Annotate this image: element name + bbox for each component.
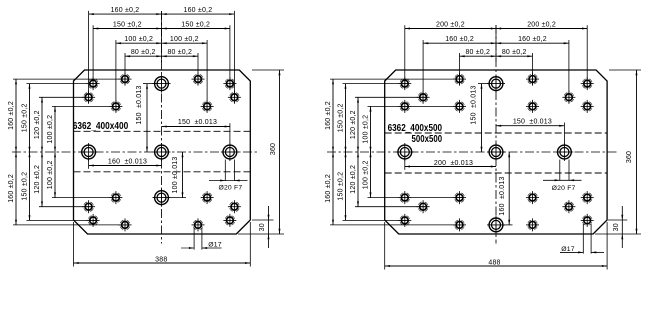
left plate top dim 80 ±0,2 bbox=[125, 49, 198, 85]
left plate vertical centerline bbox=[161, 11, 163, 244]
svg-text:120 ±0,2: 120 ±0,2 bbox=[34, 110, 41, 139]
right plate vertical centerline bbox=[495, 25, 497, 244]
right plate small hole Ø17 at (+36,+73) bbox=[526, 218, 539, 231]
left plate big hole right Ø20F7 bbox=[221, 143, 239, 161]
right plate small hole Ø17 at (-73,-55) bbox=[417, 91, 430, 104]
svg-text:150 ±0.013: 150 ±0.013 bbox=[513, 118, 552, 125]
left plate top dim 150 ±0,2 bbox=[93, 21, 230, 89]
svg-text:160 ±0,2: 160 ±0,2 bbox=[518, 36, 547, 43]
svg-text:150 ±0.013: 150 ±0.013 bbox=[471, 85, 478, 124]
right plate inner dim 150 horizontal bbox=[496, 118, 564, 148]
right plate small hole Ø17 at (+73,+55) bbox=[562, 200, 575, 213]
svg-text:360: 360 bbox=[270, 143, 277, 155]
left plate horizontal centerline bbox=[12, 151, 259, 153]
right plate small hole Ø17 at (+73,-55) bbox=[562, 91, 575, 104]
svg-text:30: 30 bbox=[259, 223, 266, 231]
left plate small hole Ø17 at (+73,+55) bbox=[228, 200, 241, 213]
left plate small hole Ø17 at (+68,+68) bbox=[223, 214, 236, 227]
svg-text:100 ±0.013: 100 ±0.013 bbox=[172, 157, 179, 194]
right plate big hole bottom Ø20F7 bbox=[487, 216, 505, 234]
svg-text:80 ±0,2: 80 ±0,2 bbox=[465, 49, 490, 56]
right plate outline 488x360 bbox=[385, 70, 607, 234]
left plate dashed line lower bbox=[74, 171, 251, 173]
svg-text:100 ±0,2: 100 ±0,2 bbox=[363, 160, 370, 189]
left plate width dim 388 bbox=[74, 222, 251, 267]
right plate big hole right Ø20F7 bbox=[555, 143, 573, 161]
svg-text:200 ±0.013: 200 ±0.013 bbox=[434, 160, 473, 167]
left plate small hole Ø17 at (-68,-68) bbox=[87, 77, 100, 90]
right plate dashed line lower bbox=[385, 172, 607, 174]
svg-text:150 ±0,2: 150 ±0,2 bbox=[338, 172, 345, 201]
svg-text:160 ±0.013: 160 ±0.013 bbox=[499, 176, 506, 215]
left plate inner dim 160 horizontal bbox=[89, 156, 162, 169]
right plate side dim 160 ±0,2 bbox=[325, 79, 334, 225]
right plate inner dim 200 horizontal bbox=[405, 156, 496, 170]
svg-text:120 ±0,2: 120 ±0,2 bbox=[350, 165, 357, 194]
svg-text:160 ±0.013: 160 ±0.013 bbox=[108, 159, 147, 166]
left plate small hole Ø17 at (-36,+73) bbox=[119, 218, 132, 231]
svg-text:Ø20 F7: Ø20 F7 bbox=[218, 184, 242, 191]
svg-text:150 ±0.013: 150 ±0.013 bbox=[178, 119, 217, 126]
svg-text:100 ±0,2: 100 ±0,2 bbox=[124, 36, 153, 43]
svg-text:160 ±0,2: 160 ±0,2 bbox=[445, 36, 474, 43]
left plate small hole Ø17 at (-46,+46) bbox=[109, 191, 122, 204]
svg-text:6362_400x400: 6362_400x400 bbox=[73, 121, 129, 132]
left plate dia 17 label bbox=[181, 228, 222, 250]
svg-text:200 ±0,2: 200 ±0,2 bbox=[436, 21, 465, 28]
left plate small hole Ø17 at (+36,-73) bbox=[192, 73, 205, 86]
right plate top dim 160 ±0,2 bbox=[423, 36, 569, 103]
right plate width dim 488 bbox=[385, 222, 607, 270]
right plate side dim extension lines bbox=[330, 79, 464, 225]
svg-text:150 ±0.013: 150 ±0.013 bbox=[136, 85, 143, 124]
right plate chamfer dim 30 bbox=[608, 206, 627, 248]
right plate small hole Ø17 at (+91,-46) bbox=[581, 100, 594, 113]
left plate small hole Ø17 at (+46,-46) bbox=[201, 100, 214, 113]
svg-text:80 ±0,2: 80 ±0,2 bbox=[131, 49, 156, 56]
right plate small hole Ø17 at (-36,+46) bbox=[453, 191, 466, 204]
right plate title 6362_400x500 / 500x500 bbox=[388, 123, 443, 145]
svg-text:160 ±0,2: 160 ±0,2 bbox=[8, 174, 15, 203]
right plate top dim center extension bbox=[495, 25, 497, 62]
left plate outline 388x360 bbox=[74, 70, 251, 234]
right plate small hole Ø17 at (-91,-46) bbox=[398, 100, 411, 113]
right plate big hole left Ø20F7 bbox=[396, 143, 414, 161]
right plate small hole Ø17 at (+91,+68) bbox=[581, 214, 594, 227]
svg-text:Ø20 F7: Ø20 F7 bbox=[552, 185, 576, 192]
left plate side dim 150 ±0,2 bbox=[22, 84, 31, 221]
right plate small hole Ø17 at (-36,-73) bbox=[453, 73, 466, 86]
left plate title 6362_400x400 bbox=[73, 121, 129, 132]
svg-text:120 ±0,2: 120 ±0,2 bbox=[350, 110, 357, 139]
svg-text:500x500: 500x500 bbox=[412, 134, 443, 145]
right plate small hole Ø17 at (-91,-68) bbox=[398, 77, 411, 90]
left plate side dim 160 ±0,2 bbox=[8, 79, 17, 225]
right plate small hole Ø17 at (-91,+68) bbox=[398, 214, 411, 227]
svg-text:Ø17: Ø17 bbox=[208, 242, 221, 249]
right plate small hole Ø17 at (-91,+46) bbox=[398, 191, 411, 204]
svg-text:200 ±0,2: 200 ±0,2 bbox=[527, 21, 556, 28]
right plate inner dim 160 vertical bbox=[499, 152, 512, 225]
left plate big hole top Ø20F7 bbox=[153, 75, 171, 93]
right plate top dim 80 ±0,2 bbox=[460, 49, 533, 85]
left plate side dim extension lines bbox=[13, 79, 129, 225]
right plate big hole top Ø20F7 bbox=[487, 75, 505, 93]
left plate small hole Ø17 at (+36,+73) bbox=[192, 218, 205, 231]
svg-text:30: 30 bbox=[613, 223, 620, 231]
svg-text:6362_400x500: 6362_400x500 bbox=[388, 123, 443, 134]
left plate top dim center extension bbox=[161, 11, 163, 62]
right plate small hole Ø17 at (-73,+55) bbox=[417, 200, 430, 213]
right plate top dim 200 ±0,2 bbox=[405, 21, 587, 89]
svg-text:488: 488 bbox=[488, 259, 500, 266]
svg-text:150 ±0,2: 150 ±0,2 bbox=[338, 103, 345, 132]
left plate inner dim 150 vertical bbox=[136, 84, 157, 152]
svg-text:100 ±0,2: 100 ±0,2 bbox=[170, 36, 199, 43]
right plate dia 20 F7 label bbox=[543, 160, 582, 192]
left plate small hole Ø17 at (-36,-73) bbox=[119, 73, 132, 86]
right plate side dim 120 ±0,2 bbox=[350, 97, 359, 206]
right plate side dim 150 ±0,2 bbox=[338, 84, 347, 221]
left plate side dim 120 ±0,2 bbox=[34, 97, 43, 206]
left plate big hole left Ø20F7 bbox=[80, 143, 98, 161]
right plate small hole Ø17 at (+36,-73) bbox=[526, 73, 539, 86]
right plate inner dim 150 vertical bbox=[471, 84, 492, 152]
right plate small hole Ø17 at (+91,-68) bbox=[581, 77, 594, 90]
right plate small hole Ø17 at (-36,+73) bbox=[453, 218, 466, 231]
left plate dia 20 F7 label bbox=[209, 160, 248, 192]
svg-text:160 ±0,2: 160 ±0,2 bbox=[184, 7, 213, 14]
right plate small hole Ø17 at (+91,+46) bbox=[581, 191, 594, 204]
svg-text:80 ±0,2: 80 ±0,2 bbox=[167, 49, 192, 56]
svg-text:150 ±0,2: 150 ±0,2 bbox=[22, 172, 29, 201]
left plate small hole Ø17 at (-73,+55) bbox=[82, 200, 95, 213]
left plate side dim 100 ±0,2 bbox=[47, 106, 56, 197]
svg-text:160 ±0,2: 160 ±0,2 bbox=[111, 7, 140, 14]
right plate small hole Ø17 at (-36,-46) bbox=[453, 100, 466, 113]
svg-text:150 ±0,2: 150 ±0,2 bbox=[113, 21, 142, 28]
left plate big hole center Ø20F7 bbox=[153, 143, 171, 161]
left plate inner dim 150 horizontal bbox=[162, 119, 230, 149]
svg-text:100 ±0,2: 100 ±0,2 bbox=[47, 115, 54, 144]
svg-text:80 ±0,2: 80 ±0,2 bbox=[502, 49, 527, 56]
right plate dashed line upper bbox=[385, 132, 607, 134]
right plate big hole center Ø20F7 bbox=[487, 143, 505, 161]
svg-text:150 ±0,2: 150 ±0,2 bbox=[181, 21, 210, 28]
right plate side dim 100 ±0,2 bbox=[363, 106, 372, 197]
left plate small hole Ø17 at (+73,-55) bbox=[228, 91, 241, 104]
left plate chamfer dim 30 bbox=[252, 206, 274, 248]
left plate top dim 160 ±0,2 bbox=[89, 7, 235, 103]
right plate small hole Ø17 at (+36,-46) bbox=[526, 100, 539, 113]
svg-text:388: 388 bbox=[155, 257, 167, 264]
svg-text:120 ±0,2: 120 ±0,2 bbox=[34, 165, 41, 194]
left plate small hole Ø17 at (+46,+46) bbox=[201, 191, 214, 204]
svg-text:360: 360 bbox=[626, 151, 633, 163]
svg-text:160 ±0,2: 160 ±0,2 bbox=[325, 174, 332, 203]
svg-text:100 ±0,2: 100 ±0,2 bbox=[47, 160, 54, 189]
svg-text:Ø17: Ø17 bbox=[561, 246, 574, 253]
left plate dashed line upper bbox=[74, 130, 251, 132]
left plate big hole bottom Ø20F7 bbox=[153, 189, 171, 207]
svg-text:160 ±0,2: 160 ±0,2 bbox=[325, 101, 332, 130]
left plate inner dim 100 vertical bbox=[165, 152, 186, 198]
left plate small hole Ø17 at (-46,-46) bbox=[109, 100, 122, 113]
svg-text:160 ±0,2: 160 ±0,2 bbox=[8, 101, 15, 130]
left plate small hole Ø17 at (+68,-68) bbox=[223, 77, 236, 90]
left plate height dim 360 bbox=[238, 70, 284, 234]
right plate height dim 360 bbox=[595, 70, 641, 234]
left plate small hole Ø17 at (-68,+68) bbox=[87, 214, 100, 227]
right plate small hole Ø17 at (+36,+46) bbox=[526, 191, 539, 204]
svg-text:100 ±0,2: 100 ±0,2 bbox=[363, 115, 370, 144]
svg-text:150 ±0,2: 150 ±0,2 bbox=[22, 103, 29, 132]
left plate top dim 100 ±0,2 bbox=[116, 36, 207, 112]
right plate horizontal centerline bbox=[327, 151, 617, 153]
left plate small hole Ø17 at (-73,-55) bbox=[82, 91, 95, 104]
right plate dia 17 label bbox=[560, 224, 604, 254]
